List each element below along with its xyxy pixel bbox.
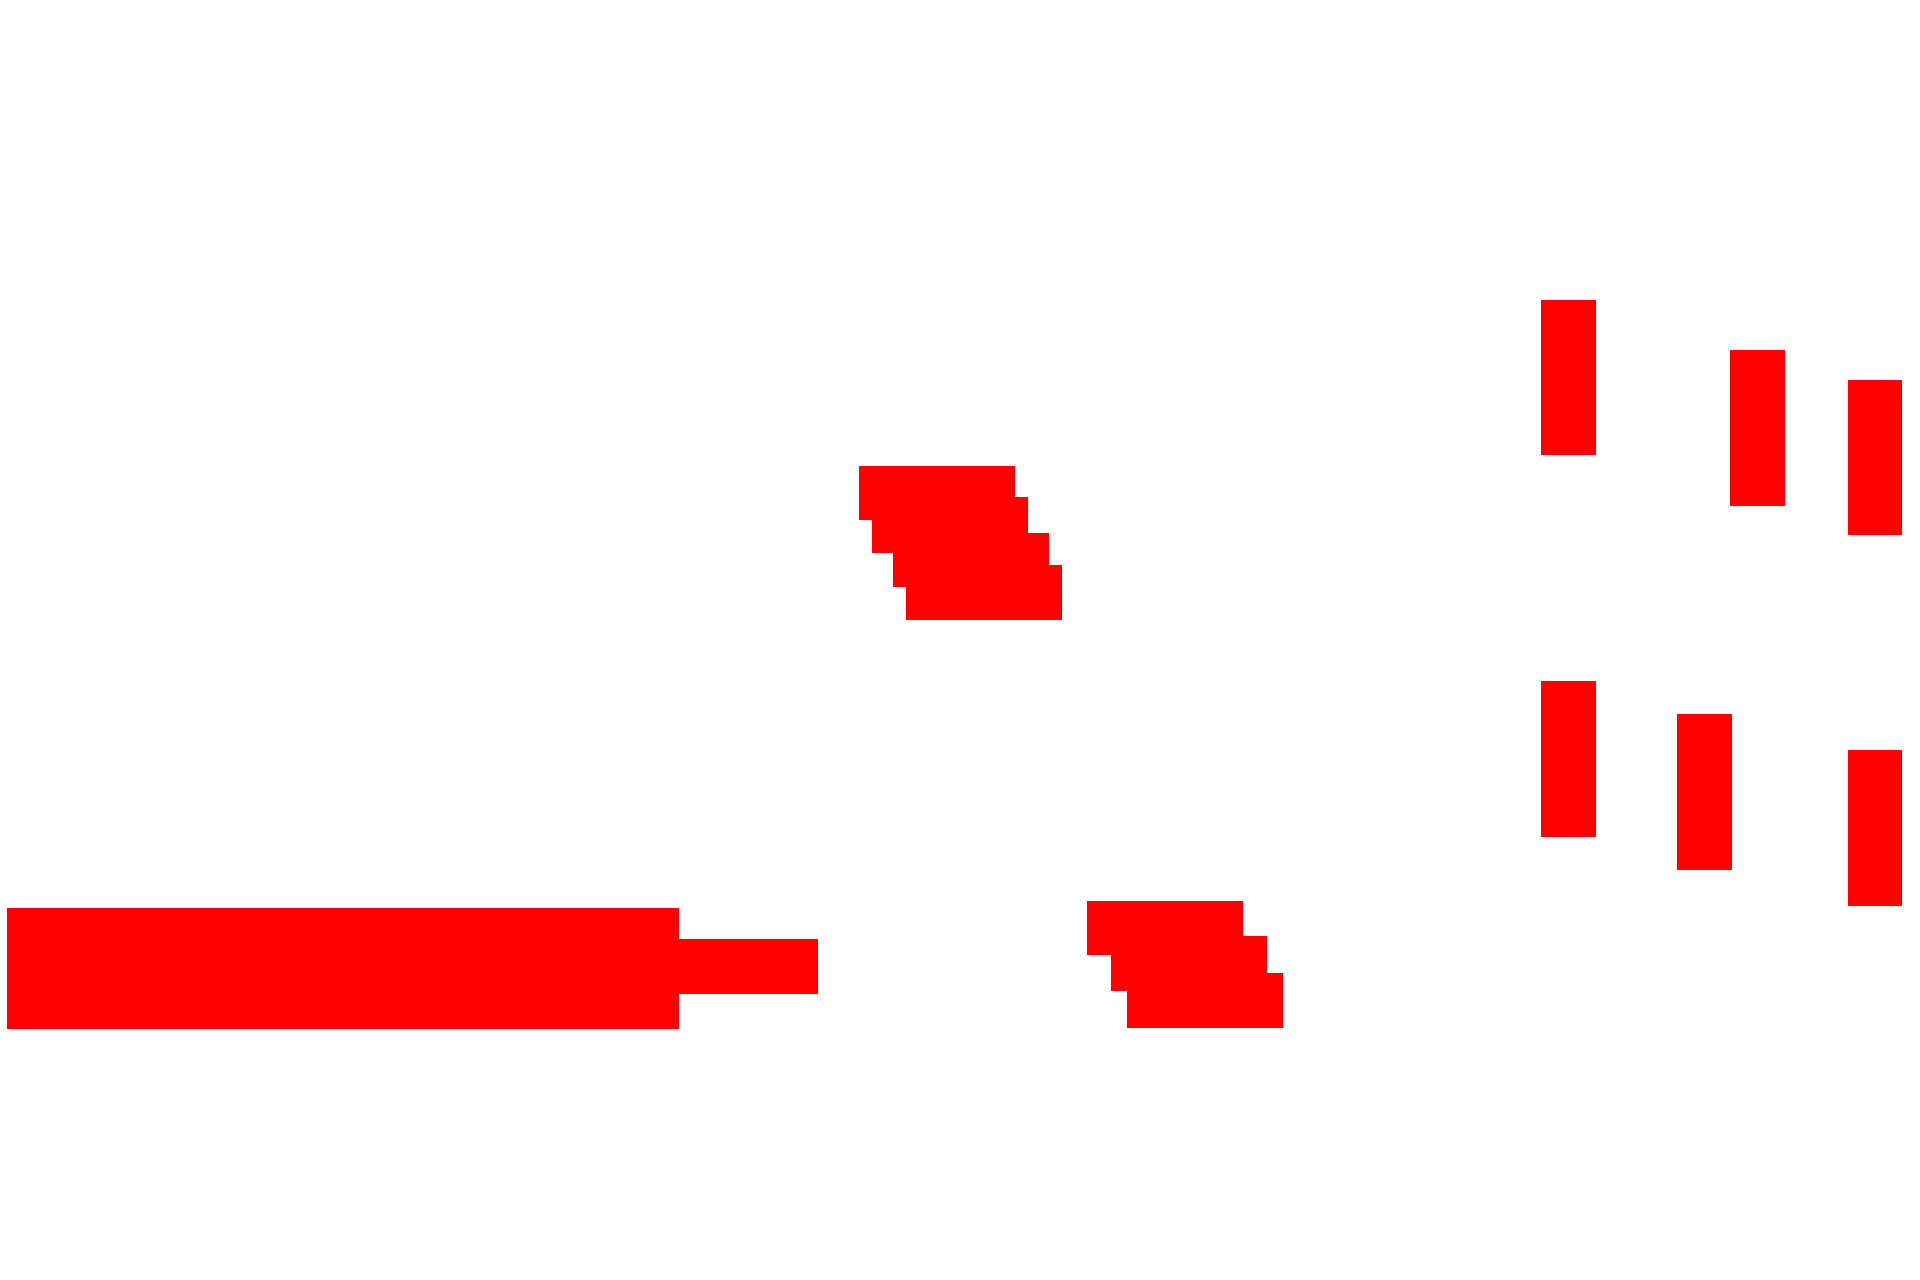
bar B2	[1730, 350, 1785, 506]
diagonal stroke A segment 2	[872, 497, 1028, 553]
horizontal bar D tail	[679, 939, 818, 994]
horizontal bar D	[7, 908, 679, 1029]
bar C1	[1541, 681, 1596, 837]
diagonal stroke A segment 4	[906, 565, 1062, 620]
bar B1	[1541, 300, 1596, 455]
diagonal stroke E segment 1	[1087, 901, 1243, 955]
bar C2	[1677, 714, 1732, 870]
bar B3	[1848, 380, 1902, 535]
diagonal stroke A segment 1	[859, 466, 1015, 520]
bar C3	[1848, 750, 1902, 906]
diagonal stroke E segment 2	[1111, 936, 1267, 991]
diagonal stroke E segment 3	[1127, 973, 1283, 1028]
diagonal stroke A segment 3	[893, 533, 1049, 587]
